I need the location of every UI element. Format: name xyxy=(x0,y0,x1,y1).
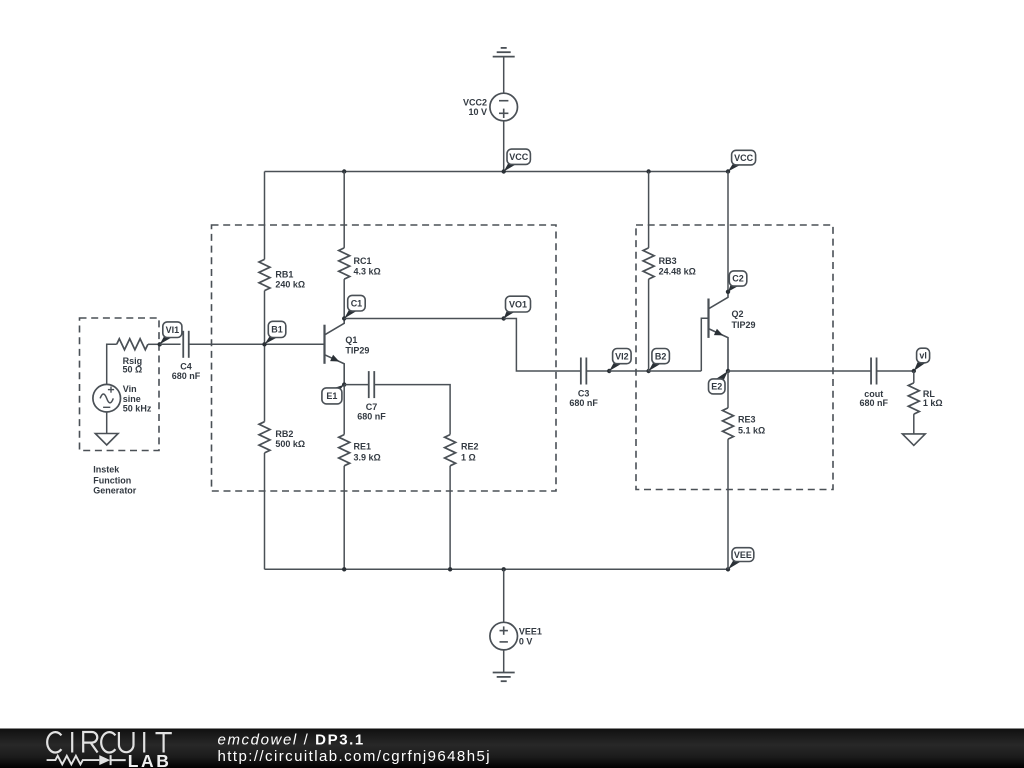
resistor RC1 4.3 kOhm xyxy=(339,248,381,279)
capacitor cout 680 nF xyxy=(860,358,889,409)
svg-text:C2: C2 xyxy=(732,274,744,284)
CircuitLab footer bar xyxy=(0,729,1024,768)
capacitor C7 680 nF xyxy=(357,371,386,421)
node B2 xyxy=(646,349,669,374)
ground (top, above VCC2) xyxy=(493,48,515,57)
node E2 xyxy=(709,369,731,394)
svg-text:1 kΩ: 1 kΩ xyxy=(923,398,943,408)
wire xyxy=(609,370,648,372)
wire xyxy=(877,370,914,372)
capacitor C3 680 nF xyxy=(569,358,598,408)
resistor Rsig 50 Ohm xyxy=(117,339,148,375)
ground (function generator) xyxy=(95,434,118,446)
wire xyxy=(727,439,729,569)
svg-text:Function: Function xyxy=(93,475,131,485)
node VEE xyxy=(726,548,754,572)
resistor RB3 24.48 kOhm xyxy=(643,248,696,279)
svg-text:LAB: LAB xyxy=(128,751,172,768)
svg-text:C1: C1 xyxy=(351,298,363,308)
svg-text:0 V: 0 V xyxy=(519,637,533,647)
svg-text:emcdowel / DP3.1: emcdowel / DP3.1 xyxy=(218,732,365,749)
svg-text:4.3 kΩ: 4.3 kΩ xyxy=(354,267,381,277)
wire xyxy=(913,414,915,434)
wire xyxy=(264,453,266,569)
transistor Q2 TIP29 xyxy=(709,292,756,371)
svg-text:Q1: Q1 xyxy=(345,335,357,345)
svg-text:B2: B2 xyxy=(655,351,667,361)
wire xyxy=(264,344,266,421)
svg-text:Instek: Instek xyxy=(93,464,120,474)
svg-text:C4: C4 xyxy=(180,362,192,372)
capacitor C4 680 nF xyxy=(172,331,201,381)
node VCC (flag at VCC2) xyxy=(502,149,531,174)
svg-text:C3: C3 xyxy=(578,388,590,398)
node VO1 xyxy=(502,296,531,320)
wire xyxy=(648,279,650,371)
ground (at RL) xyxy=(902,434,925,446)
voltage source Vin sine 50 kHz xyxy=(93,384,152,414)
wire (Q2 base lead) xyxy=(701,318,708,371)
svg-text:VI2: VI2 xyxy=(615,351,629,361)
svg-text:680 nF: 680 nF xyxy=(569,398,598,408)
resistor RE1 3.9 kOhm xyxy=(339,435,381,466)
svg-text:vl: vl xyxy=(919,351,927,361)
wire xyxy=(343,466,345,570)
svg-text:B1: B1 xyxy=(271,325,283,335)
svg-text:E1: E1 xyxy=(326,391,337,401)
svg-text:Q2: Q2 xyxy=(732,309,744,319)
wire xyxy=(264,172,266,260)
node VI1 xyxy=(158,322,182,347)
wire xyxy=(106,412,108,434)
svg-text:TIP29: TIP29 xyxy=(732,320,756,330)
junction (RE2 / VEE rail) xyxy=(448,567,452,571)
wire xyxy=(344,318,504,320)
node C2 xyxy=(726,271,747,294)
svg-text:680 nF: 680 nF xyxy=(860,398,889,408)
resistor RL 1 kOhm xyxy=(908,383,942,414)
enclosure: amplifier stage 2 (dashed) xyxy=(636,225,833,490)
svg-text:5.1 kΩ: 5.1 kΩ xyxy=(738,426,765,436)
wire xyxy=(503,57,505,94)
wire xyxy=(586,370,609,372)
svg-text:240 kΩ: 240 kΩ xyxy=(275,280,305,290)
svg-text:VCC2: VCC2 xyxy=(463,98,487,108)
svg-text:RE2: RE2 xyxy=(461,442,479,452)
svg-text:TIP29: TIP29 xyxy=(345,346,369,356)
wire xyxy=(449,466,451,570)
wire xyxy=(264,291,266,345)
transistor Q1 TIP29 xyxy=(325,319,370,385)
wire xyxy=(160,343,181,345)
svg-text:Vin: Vin xyxy=(123,384,137,394)
wire xyxy=(343,172,345,248)
junction (RC1 / VCC rail) xyxy=(342,169,346,173)
wire xyxy=(503,121,505,172)
svg-text:C7: C7 xyxy=(366,402,378,412)
svg-text:VCC: VCC xyxy=(734,153,754,163)
wire xyxy=(107,344,117,384)
node VCC (flag right) xyxy=(726,150,756,173)
resistor RB2 500 kOhm xyxy=(259,422,305,453)
wire (VCC rail) xyxy=(265,171,729,173)
svg-text:Generator: Generator xyxy=(93,486,137,496)
svg-text:RC1: RC1 xyxy=(354,256,372,266)
svg-text:10 V: 10 V xyxy=(468,107,487,117)
svg-text:680 nF: 680 nF xyxy=(172,371,201,381)
ground (bottom, below VEE1) xyxy=(493,673,515,682)
svg-text:50 Ω: 50 Ω xyxy=(123,365,143,375)
svg-text:sine: sine xyxy=(123,394,141,404)
node E1 xyxy=(322,382,347,404)
wire xyxy=(374,385,450,435)
junction (RE1 / VEE rail) xyxy=(342,567,346,571)
wire xyxy=(189,343,325,345)
enclosure: amplifier stage 1 (dashed) xyxy=(212,225,557,491)
CircuitLab logo xyxy=(47,732,172,768)
wire xyxy=(148,343,160,345)
svg-text:VO1: VO1 xyxy=(509,299,527,309)
voltage source VEE1 0 V xyxy=(490,622,542,650)
svg-text:RB2: RB2 xyxy=(275,429,293,439)
svg-text:24.48 kΩ: 24.48 kΩ xyxy=(659,267,696,277)
svg-text:VEE1: VEE1 xyxy=(519,627,542,637)
wire xyxy=(648,172,650,248)
svg-text:RE1: RE1 xyxy=(354,442,372,452)
voltage source VCC2 10 V xyxy=(463,93,518,121)
wire xyxy=(728,370,871,372)
wire xyxy=(343,385,345,435)
svg-text:VCC: VCC xyxy=(509,152,529,162)
wire xyxy=(504,319,581,372)
wire xyxy=(344,384,369,386)
wire xyxy=(343,279,345,318)
svg-text:http://circuitlab.com/cgrfnj96: http://circuitlab.com/cgrfnj9648h5j xyxy=(218,748,492,765)
junction (RB3 / VCC rail) xyxy=(646,169,650,173)
junction (VEE1 / VEE rail) xyxy=(502,567,506,571)
node C1 xyxy=(342,295,365,320)
resistor RB1 240 kOhm xyxy=(259,259,305,290)
resistor RE3 5.1 kOhm xyxy=(723,408,766,439)
svg-text:RE3: RE3 xyxy=(738,415,756,425)
enclosure: Instek Function Generator (dashed) xyxy=(80,318,160,496)
svg-text:680 nF: 680 nF xyxy=(357,412,386,422)
wire (VEE rail) xyxy=(265,568,729,570)
svg-text:50 kHz: 50 kHz xyxy=(123,404,152,414)
node VI2 xyxy=(607,349,631,374)
resistor RE2 1 Ohm xyxy=(445,435,479,466)
svg-text:RB1: RB1 xyxy=(275,269,293,279)
node vl xyxy=(912,348,930,373)
svg-text:1 Ω: 1 Ω xyxy=(461,452,476,462)
svg-text:500 kΩ: 500 kΩ xyxy=(275,439,305,449)
wire xyxy=(727,371,729,408)
wire xyxy=(649,370,702,372)
svg-text:RB3: RB3 xyxy=(659,256,677,266)
svg-text:VI1: VI1 xyxy=(166,325,180,335)
wire xyxy=(503,569,505,622)
node B1 xyxy=(262,321,286,346)
svg-text:3.9 kΩ: 3.9 kΩ xyxy=(354,452,381,462)
wire (Q2 collector to VCC) xyxy=(727,172,729,292)
svg-text:E2: E2 xyxy=(711,382,722,392)
wire xyxy=(503,650,505,673)
svg-text:VEE: VEE xyxy=(734,550,752,560)
wire xyxy=(913,371,915,383)
